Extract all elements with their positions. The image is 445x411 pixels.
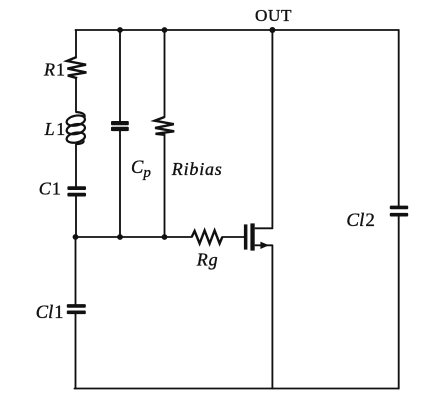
channel bar [250,223,254,250]
node dot mid left [73,234,79,240]
source arrow [260,242,269,249]
wire bottom rail [75,388,399,390]
svg-text:L1: L1 [44,119,66,139]
resistor Ribias [155,117,175,135]
node dot top Ribias [162,27,168,33]
wire left branch (R1 to L1) [75,79,77,113]
wire left branch top (rail to R1) [75,30,77,57]
source lead [255,244,273,246]
wire source vertical (source down to bottom rail) [271,245,273,388]
node dot OUT [269,27,275,33]
svg-text:C1: C1 [39,179,61,199]
svg-text:Ribias: Ribias [171,159,223,179]
capacitor Cp [111,121,129,131]
wire Cp branch upper [119,30,121,121]
wire right branch upper [398,30,400,205]
resistor R1 [67,57,86,78]
gate bar [244,224,248,249]
svg-text:Cp: Cp [131,158,151,181]
wire left branch (L1 to C1) [75,144,77,186]
capacitor C1 [67,186,86,196]
capacitor Cl2 [390,206,408,217]
wire right branch lower [398,217,400,389]
wire Cp branch lower [119,131,121,237]
svg-text:Rg: Rg [196,250,219,270]
wire top rail [76,29,399,31]
svg-text:R1: R1 [43,60,65,80]
wire mid horizontal (node to Rg) [76,236,192,238]
transistor Q1 (MOSFET) [244,223,273,250]
svg-text:OUT: OUT [255,6,292,25]
node dot mid Ribias [162,234,168,240]
drain lead [255,227,273,229]
resistor Rg [192,231,223,244]
wire left branch (Cl1 to bottom rail) [75,314,77,389]
svg-text:Cl1: Cl1 [36,303,64,323]
node dot mid Cp [117,234,123,240]
svg-text:Cl2: Cl2 [346,210,374,231]
wire Ribias branch lower [164,134,166,237]
capacitor Cl1 [67,304,86,314]
inductor L1 [66,112,86,144]
wire Ribias branch upper [164,30,166,117]
wire left branch (mid node to Cl1) [75,237,77,304]
wire left branch (C1 to mid node) [75,196,77,237]
wire drain vertical (OUT node down to drain) [271,30,273,228]
node dot top Cp [117,27,123,33]
wire mid horizontal (Rg to gate) [222,236,244,238]
